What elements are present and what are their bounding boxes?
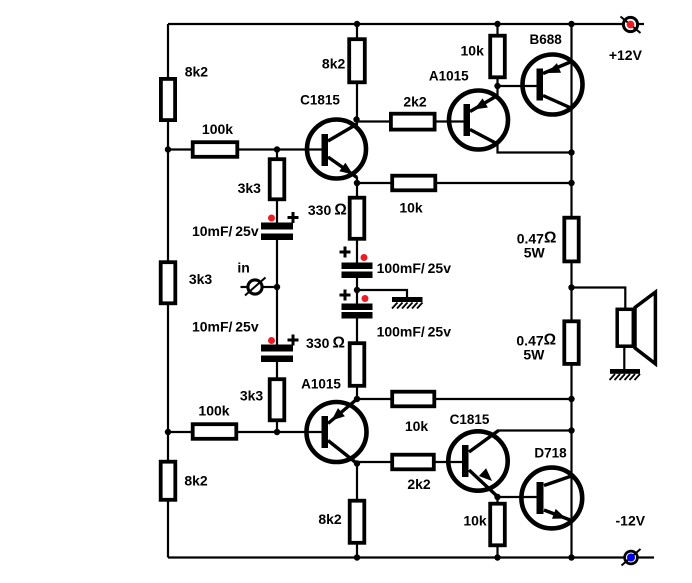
polarity mark red dot 100mF lower	[362, 295, 369, 302]
wire input column lower (10mF cap to 100k node)	[276, 362, 278, 433]
svg-text:8k2: 8k2	[318, 511, 342, 527]
node A1015 lower emitter / 10k / 330 ohm	[354, 396, 360, 402]
ground symbol below speaker	[610, 369, 641, 380]
resistor 8k2 lower left	[161, 462, 176, 500]
svg-text:A1015: A1015	[429, 69, 469, 84]
node C1815 collector / 2k2	[353, 116, 359, 122]
capacitor 10mF/25v lower plate A	[261, 345, 293, 352]
resistor 8k2 upper middle	[349, 39, 365, 82]
svg-text:3k3: 3k3	[240, 388, 264, 404]
resistor 10k lower right	[490, 504, 505, 546]
node C1815 lower emitter / 10k / D718 base	[494, 494, 500, 500]
plus sign 10mF upper	[288, 212, 299, 223]
wire 10k top vertical through resistor	[496, 24, 498, 96]
wire emitter node through 10k to output rail	[357, 182, 572, 184]
resistor 3k3 lower input	[270, 379, 285, 420]
svg-text:100mF/ 25v: 100mF/ 25v	[377, 324, 452, 340]
node in / input column	[274, 284, 280, 290]
resistor 0.47 ohm lower	[564, 321, 578, 364]
svg-text:2k2: 2k2	[403, 94, 427, 110]
resistor 10k upper emitter	[392, 176, 435, 191]
capacitor 100mF/25v lower plate B	[342, 312, 373, 319]
wire lower emitter node through 10k to output rail	[357, 398, 572, 400]
wire lower node to D718 base	[498, 496, 538, 498]
node output / speaker	[568, 284, 574, 290]
wire 100k lower to A1015 base	[168, 431, 322, 433]
capacitor 100mF/25v upper plate B	[342, 272, 373, 279]
node 100k lower / 3k3 lower	[274, 429, 280, 435]
svg-text:10k: 10k	[461, 42, 485, 58]
node C1815 emitter / 10k / 330 ohm	[354, 180, 360, 186]
svg-text:10k: 10k	[405, 418, 429, 434]
transistor Q3 B688 (upper power PNP)	[523, 55, 583, 115]
plus sign 10mF lower	[288, 335, 299, 346]
speaker	[617, 292, 655, 364]
svg-text:-12V: -12V	[616, 513, 646, 529]
svg-text:10mF/ 25v: 10mF/ 25v	[192, 223, 259, 239]
wire between 100mF caps	[356, 278, 358, 305]
wire C1815 emitter to 330 ohm	[356, 177, 358, 263]
svg-text:100mF/ 25v: 100mF/ 25v	[377, 260, 452, 276]
wire 10k lower right vertical through resistor	[496, 497, 498, 558]
svg-text:C1815: C1815	[450, 412, 490, 427]
wire input column upper (node to 10mF cap)	[276, 150, 278, 224]
node 10k / A1015 emitter / B688 base	[494, 83, 500, 89]
node C1815 lower collector / output rail	[568, 427, 574, 433]
wire 100k upper to C1815 base	[168, 148, 322, 150]
svg-text:3k3: 3k3	[189, 271, 213, 287]
wire bottom rail stub right of -12V terminal	[638, 556, 654, 558]
terminal in	[245, 278, 266, 296]
resistor 10k lower emitter	[392, 392, 434, 407]
svg-text:A1015: A1015	[301, 377, 341, 392]
resistor 2k2 lower	[392, 455, 434, 470]
node left rail / 100k upper	[165, 146, 171, 152]
svg-text:10k: 10k	[463, 513, 487, 529]
svg-text:8k2: 8k2	[185, 64, 209, 80]
plus sign 100mF upper	[340, 247, 351, 258]
resistor 10k upper	[490, 36, 505, 78]
resistor 8k2 upper left	[161, 79, 175, 120]
wire collector node to 2k2 to A1015 base	[357, 120, 464, 122]
wire C1815 lower collector to output rail	[498, 429, 572, 431]
transistor Q6 D718 (lower power NPN)	[521, 468, 582, 529]
node between 100mF caps	[354, 287, 360, 293]
resistor 3k3 upper input	[270, 159, 285, 199]
polarity mark red dot 100mF upper	[361, 254, 368, 261]
capacitor 100mF/25v lower plate A	[342, 304, 373, 311]
resistor 8k2 lower middle	[350, 501, 365, 543]
svg-text:330 Ω: 330 Ω	[306, 335, 345, 352]
svg-text:330 Ω: 330 Ω	[308, 202, 347, 219]
wire caps node to ground	[357, 290, 407, 298]
wire node to B688 base	[498, 85, 538, 87]
svg-text:+12V: +12V	[609, 47, 643, 63]
node bottom rail / 8k2 lower	[354, 554, 360, 560]
svg-text:5W: 5W	[524, 245, 546, 261]
wire input column middle (cap to cap through in node)	[276, 240, 278, 346]
svg-text:in: in	[237, 260, 249, 276]
wire in terminal left stub	[241, 286, 250, 288]
wire left rail vertical	[167, 24, 169, 558]
svg-text:C1815: C1815	[300, 93, 340, 108]
wire 100mF cap to 330 ohm lower	[356, 318, 358, 399]
svg-text:3k3: 3k3	[238, 180, 262, 196]
resistor 3k3 left	[161, 262, 176, 303]
svg-text:10k: 10k	[399, 200, 423, 216]
svg-text:100k: 100k	[202, 121, 233, 137]
svg-text:8k2: 8k2	[322, 56, 346, 72]
wire output rail vertical	[570, 24, 572, 558]
resistor 100k upper	[193, 142, 238, 157]
polarity mark red dot 10mF upper	[268, 215, 275, 222]
wire top rail stub right of +12V terminal	[638, 23, 644, 25]
wire A1015 collector down and right to output rail	[498, 144, 572, 153]
svg-text:8k2: 8k2	[184, 473, 208, 489]
svg-text:10mF/ 25v: 10mF/ 25v	[192, 319, 259, 335]
transistor Q5 C1815 (lower pre-driver NPN)	[448, 431, 507, 498]
node top rail / output rail	[568, 21, 574, 27]
resistor 0.47 ohm upper	[564, 218, 578, 262]
svg-text:100k: 100k	[198, 403, 229, 419]
terminal +12V	[621, 17, 641, 34]
resistor 330 ohm upper	[350, 198, 365, 239]
wire output node to speaker	[572, 288, 626, 310]
node top rail / middle column	[354, 21, 360, 27]
svg-text:5W: 5W	[523, 347, 545, 363]
node left rail / 100k lower	[165, 429, 171, 435]
polarity mark red dot 10mF lower	[268, 337, 275, 344]
ground symbol near 100mF caps	[392, 297, 423, 309]
resistor 2k2 upper	[391, 114, 435, 130]
capacitor 100mF/25v upper plate A	[342, 263, 373, 270]
terminal -12V	[622, 549, 641, 566]
plus sign 100mF lower	[340, 290, 351, 301]
transistor Q4 A1015 (lower driver PNP)	[307, 399, 367, 464]
wire speaker to ground	[623, 347, 625, 370]
wire bottom -12V rail	[168, 556, 624, 558]
capacitor 10mF/25v upper plate A	[261, 223, 293, 230]
svg-text:2k2: 2k2	[407, 476, 431, 492]
node bottom rail / 10k lower	[494, 554, 500, 560]
capacitor 10mF/25v upper plate B	[261, 234, 293, 241]
node 10k / output rail	[568, 180, 574, 186]
transistor Q1 C1815 (upper driver NPN)	[307, 120, 366, 179]
resistor 100k lower	[193, 424, 237, 439]
resistor 330 ohm lower	[350, 343, 365, 386]
wire top +12V rail	[168, 23, 622, 25]
transistor Q2 A1015 (upper pre-driver PNP)	[449, 91, 508, 150]
node bottom rail / output rail	[568, 554, 574, 560]
node A1015 lower collector / 2k2 / 8k2	[354, 460, 360, 466]
svg-text:D718: D718	[534, 446, 567, 461]
node 100k / 3k3 upper	[274, 146, 280, 152]
wire lower collector node through 2k2 to C1815 base	[357, 461, 462, 463]
node top rail / 10k	[494, 21, 500, 27]
capacitor 10mF/25v lower plate B	[261, 356, 293, 363]
wire in terminal to input column	[261, 286, 277, 288]
node A1015 collector / output rail	[568, 149, 574, 155]
wire A1015 collector to 8k2 lower	[356, 464, 358, 558]
svg-text:B688: B688	[529, 32, 562, 47]
wire middle column top (8k2 to C1815 collector)	[356, 24, 358, 125]
node 10k lower / output rail	[568, 396, 574, 402]
